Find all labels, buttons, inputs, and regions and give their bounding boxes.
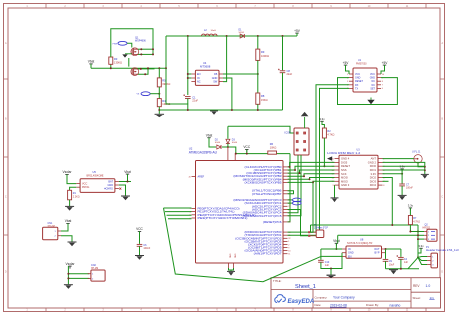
wire VCC pole (246, 149, 248, 153)
svg-text:GND: GND (212, 77, 218, 80)
wire C1 bottom (187, 99, 189, 111)
junction cn2a (67, 273, 69, 275)
date value 2019-02-08 (330, 303, 347, 307)
svg-text:100nF: 100nF (406, 187, 413, 190)
svg-text:BYP: BYP (374, 252, 379, 255)
junction rail/EN (187, 35, 189, 37)
wire out (386, 248, 401, 250)
svg-text:Your Company: Your Company (333, 296, 355, 300)
capacitor C9 plates (383, 259, 389, 261)
inductor L2 (202, 34, 218, 36)
svg-text:IN: IN (348, 248, 351, 251)
junction q2a (140, 68, 142, 70)
wire U1 gnd loop (338, 78, 398, 105)
wire TX-PD1 (288, 88, 350, 235)
svg-text:PROG: PROG (82, 186, 89, 189)
svg-text:(XTAL2/TOSC2)PB7: (XTAL2/TOSC2)PB7 (252, 192, 282, 196)
ground below U5 (121, 196, 130, 200)
svg-text:BRCL4054CME: BRCL4054CME (87, 175, 104, 178)
wire x418 (417, 225, 419, 257)
wire gnd pole (230, 270, 232, 271)
wire gnd3 (334, 185, 336, 197)
wire +5v right (381, 65, 385, 74)
wire xtal (288, 191, 294, 194)
wire r7 top (409, 208, 411, 216)
no-connect mark CHRG (119, 188, 121, 190)
lora U3 body (339, 155, 378, 189)
svg-text:D: D (5, 271, 7, 274)
capacitor C6 plates (137, 244, 143, 246)
wire dio3 (383, 180, 389, 182)
flag Vbat left (88, 60, 95, 67)
wire +5V top rail (166, 35, 297, 37)
wire to EN (188, 73, 192, 75)
ground below C6 (135, 256, 144, 260)
ground below R1 (65, 206, 74, 210)
wire R3 bottom lead (110, 64, 112, 68)
wire to IN (188, 77, 192, 79)
svg-text:10uH: 10uH (211, 30, 217, 32)
svg-text:VCC: VCC (136, 227, 143, 231)
junction out/c9 (385, 248, 387, 250)
junction u4gnd/rail (231, 109, 233, 111)
wire R5-R4 (158, 87, 160, 99)
svg-text:IN: IN (197, 77, 200, 80)
svg-text:DIO1: DIO1 (370, 168, 377, 172)
wire q2p2 (418, 234, 424, 236)
ground below MCU (227, 271, 235, 275)
wire vsolar pole (67, 266, 69, 284)
svg-text:R8: R8 (261, 94, 265, 98)
svg-text:3.3v: 3.3v (408, 204, 414, 208)
svg-text:CN2: CN2 (91, 264, 96, 267)
wire c10 top (320, 249, 322, 260)
oval net SDA (292, 198, 301, 202)
svg-text:TITLE:: TITLE: (273, 279, 282, 283)
wire y225 (311, 224, 419, 226)
wire r1 down (69, 200, 71, 206)
svg-text:4.7KΩ: 4.7KΩ (413, 221, 420, 224)
wire R4 bottom (158, 107, 160, 114)
junction dio2/y225 (391, 224, 393, 226)
junction 3v3 (401, 173, 403, 175)
svg-text:130KΩ: 130KΩ (114, 60, 122, 64)
wire +5V to ICSP (228, 126, 294, 133)
wire +5V pole (296, 33, 298, 36)
wire Vbat pole (90, 64, 92, 69)
junction divider mid (158, 93, 160, 95)
mcu right pins (233, 165, 282, 256)
wire dio2 down (383, 178, 393, 226)
junction q1d (152, 53, 154, 55)
svg-text:(AIN1/PTCXY)PD7: (AIN1/PTCXY)PD7 (254, 252, 282, 256)
junction q2b (144, 73, 146, 75)
svg-text:ICSP: ICSP (285, 131, 291, 135)
wire oval2 to divider (150, 93, 159, 95)
flag 3.3v r2 (319, 117, 325, 124)
antenna connector J1 (414, 155, 422, 163)
wire gate loop (111, 29, 153, 57)
capacitor C8 plates (278, 69, 285, 73)
svg-text:U8: U8 (360, 237, 364, 241)
wire c9 bottom (385, 261, 387, 268)
diode D2 (217, 145, 221, 149)
svg-text:CN1: CN1 (48, 222, 53, 225)
wire pe1 out (165, 211, 192, 213)
resistor R9 body (256, 49, 260, 60)
svg-text:+5V: +5V (382, 61, 389, 65)
wire miso-p3 (310, 182, 313, 232)
svg-text:Vbat: Vbat (88, 60, 95, 64)
junction shield (424, 166, 426, 168)
svg-text:22uF: 22uF (287, 73, 293, 76)
junction dio (424, 169, 426, 171)
flag vbat charger (124, 170, 131, 177)
svg-text:VCC: VCC (243, 145, 250, 149)
mcu bottom GND pins (229, 263, 234, 268)
wire gnd merge (229, 268, 234, 270)
wire SCK-PB3 (288, 174, 335, 176)
ground below C7 (398, 195, 407, 200)
svg-text:(XCKB/SCK0/PTCXY)PB5: (XCKB/SCK0/PTCXY)PB5 (245, 180, 283, 184)
wire C8 bottom (282, 73, 284, 110)
U5 pin names (82, 181, 113, 191)
svg-text:MT3608: MT3608 (200, 65, 211, 69)
wire RESET-PB1 (288, 166, 335, 170)
wire NSS-PB2 (288, 170, 335, 173)
svg-text:VCC: VCC (355, 73, 360, 76)
wire U4 gnd (223, 78, 232, 110)
wire D3 top (227, 126, 229, 139)
svg-text:2.2KΩ: 2.2KΩ (73, 195, 80, 198)
ground below R4 (155, 114, 165, 117)
svg-text:ATMEGA328PB-AU: ATMEGA328PB-AU (189, 150, 218, 154)
svg-text:AREF: AREF (198, 176, 205, 179)
wire y235 (338, 234, 418, 236)
junction avcc (235, 153, 237, 155)
svg-text:2.54mm 3*1P: 2.54mm 3*1P (314, 228, 328, 230)
wire vcc pole (139, 231, 141, 244)
svg-text:SET: SET (370, 87, 375, 90)
ICSP pin pads (296, 132, 306, 151)
EasyEDA logo (275, 295, 314, 306)
junction rail/C8 (282, 35, 284, 37)
CN2 pins (88, 274, 94, 281)
svg-text:C: C (441, 196, 443, 199)
svg-text:15KΩ: 15KΩ (261, 98, 268, 102)
wire vbat pole u8 (335, 243, 337, 249)
resistor R1 body (68, 190, 72, 200)
wire q2 drain (138, 67, 154, 70)
wire gnd pole u8 (330, 269, 332, 276)
junction pb0 (289, 166, 291, 168)
sensor U1 PMS7003 body (353, 68, 377, 92)
ground right of antenna (421, 174, 429, 178)
wire IN (321, 248, 342, 250)
svg-text:(SCL0/ADC5/LPTCXY)PC5: (SCL0/ADC5/LPTCXY)PC5 (243, 214, 282, 218)
svg-text:GND: GND (234, 254, 236, 259)
svg-text:D: D (441, 271, 443, 274)
U8 pin names (348, 248, 380, 258)
ground below C9/C4 (389, 270, 398, 275)
resistor R6 body (268, 151, 277, 154)
svg-text:SS34: SS34 (239, 32, 245, 34)
wire pe0 out (164, 207, 192, 209)
wire MISO-PB5 (288, 181, 335, 182)
svg-text:U.FL J1: U.FL J1 (412, 150, 421, 153)
flag 3.3v r7 (408, 204, 414, 211)
junction vbat u8 (335, 248, 337, 250)
ground on bottom rail (210, 111, 218, 115)
wire diag to gnd (408, 257, 418, 268)
junction pb3 (303, 175, 305, 177)
wire C8 top (282, 36, 284, 70)
ldo U8 body (346, 246, 382, 258)
junction q1b (140, 53, 142, 55)
svg-text:PE3(PTCXY/ADC7/T3/MOSI1): PE3(PTCXY/ADC7/T3/MOSI1) (198, 216, 248, 220)
ground below U8 (flat) (327, 275, 336, 278)
junction R8/rail (257, 109, 259, 111)
svg-text:SW: SW (213, 81, 218, 84)
wire 3v3 pin (383, 173, 403, 175)
svg-text:PWR: PWR (113, 43, 118, 45)
svg-text:DIO5: DIO5 (341, 160, 348, 164)
junction EN (187, 73, 189, 75)
svg-text:Header Female 2.54_1x3: Header Female 2.54_1x3 (426, 248, 459, 252)
svg-text:GND: GND (348, 252, 354, 255)
svg-text:NC: NC (372, 80, 376, 83)
wire pe3 out (168, 218, 192, 220)
junction VCC (246, 153, 248, 155)
capacitor C1 plates (183, 94, 190, 98)
wire dio0 (383, 165, 425, 167)
svg-text:U5: U5 (93, 170, 97, 174)
svg-text:NC: NC (197, 81, 201, 84)
U1 pin stubs and numbers (347, 74, 385, 90)
wire oval to Q1 gate (127, 43, 132, 47)
wire to oval scl (288, 202, 293, 204)
flag vbat cn1 (65, 219, 72, 226)
wire gnd2 (383, 162, 425, 174)
junction q1c (152, 48, 154, 50)
wire dio1 (383, 169, 425, 171)
oval net label 1 (118, 41, 127, 45)
transistor Q2 (lower MOSFET) (131, 68, 139, 76)
wire c6 down (139, 246, 141, 255)
svg-text:WSP4606: WSP4606 (135, 40, 146, 43)
svg-text:C: C (5, 196, 7, 199)
capacitor C10 plates (318, 260, 324, 262)
junction rail/R9 (257, 35, 259, 37)
svg-text:3.3v: 3.3v (319, 117, 325, 121)
wire EN-IN trunk x188 (187, 36, 189, 95)
capacitor C4 plates (397, 255, 404, 259)
U3 pin names (341, 157, 377, 188)
regulator U4 MT3608 body (195, 70, 219, 85)
wire EN (321, 255, 342, 257)
wire bat (119, 181, 131, 183)
wire R9-R8 (257, 60, 259, 93)
svg-text:4.7KΩ: 4.7KΩ (327, 133, 334, 136)
resistor R8 body (256, 93, 260, 104)
junction bat (127, 181, 129, 183)
wire vbat pole chg (127, 174, 129, 182)
svg-text:1/1: 1/1 (430, 296, 435, 300)
svg-text:Sheet:: Sheet: (413, 296, 422, 300)
svg-text:#CHRG: #CHRG (104, 188, 113, 191)
flag 3.3v p1 (418, 244, 424, 251)
svg-text:10KΩ: 10KΩ (270, 146, 277, 150)
transistor Q1 (upper MOSFET) (131, 48, 139, 56)
wire Vbat rail y68 (91, 67, 166, 69)
junction q1a (140, 48, 142, 50)
junction pb1 (294, 169, 296, 171)
svg-text:SS04: SS04 (215, 142, 221, 144)
diode D3 (226, 139, 230, 143)
wire u5 gnd (119, 185, 126, 196)
junction IN (187, 77, 189, 79)
svg-text:Vsolar: Vsolar (62, 170, 72, 174)
svg-text:LORA RFM REV 1.2: LORA RFM REV 1.2 (327, 151, 360, 155)
svg-text:100KΩ: 100KΩ (261, 54, 269, 58)
wire q2 source (138, 68, 148, 74)
wire R6 to RESET (288, 154, 291, 222)
svg-text:Vsolar: Vsolar (65, 262, 75, 266)
svg-text:1uF: 1uF (325, 264, 330, 267)
ICSP header body (294, 128, 309, 155)
wire c10 bottom (321, 262, 331, 268)
wire 3.3v pole (322, 121, 324, 128)
svg-text:Date:: Date: (315, 303, 322, 307)
junction c4/gnd (400, 268, 402, 270)
wire pc3-p3 (288, 210, 309, 236)
ground on U1 loop (367, 98, 374, 105)
wire riser down to C1 (166, 68, 188, 104)
wire pe2 out (167, 214, 192, 216)
Q2 pins (424, 231, 435, 241)
wire R8 bottom (257, 104, 259, 110)
power arrow above ICSP (301, 112, 309, 128)
wire shield (418, 163, 425, 167)
sensor Q2 body (427, 229, 437, 241)
wire SW to rail (223, 36, 227, 82)
U8 pin stubs (342, 249, 386, 256)
svg-text:RX: RX (355, 84, 359, 87)
connector P1 body (431, 253, 438, 268)
svg-text:C8: C8 (287, 69, 291, 73)
svg-text:GND: GND (229, 254, 231, 259)
sheet value 1/1 (429, 296, 434, 300)
svg-text:Vbat: Vbat (333, 239, 340, 243)
svg-text:GND: GND (107, 184, 113, 187)
port arrow at GND4 (327, 156, 332, 160)
svg-text:VCC: VCC (82, 183, 87, 186)
U4 pin names (197, 73, 218, 84)
resistor R4 body (157, 99, 161, 107)
flag vsolar charger (62, 170, 72, 177)
svg-text:2019-02-08: 2019-02-08 (330, 303, 347, 307)
wire 3v3 down (401, 169, 403, 184)
wire c9 top (385, 249, 387, 259)
svg-text:EN: EN (197, 73, 201, 76)
svg-text:1uF: 1uF (404, 261, 409, 264)
ground below CN1 (68, 242, 77, 246)
flag vcc c6 (136, 227, 143, 234)
junction gnd node (330, 268, 332, 270)
svg-text:Drawn By:: Drawn By: (366, 303, 379, 307)
U3 pin stubs and numbers (331, 158, 385, 187)
U5 pin stubs (76, 182, 119, 189)
svg-text:GND: GND (355, 77, 361, 80)
wire icsp-pc5 (288, 155, 302, 216)
svg-text:SCK: SCK (341, 172, 347, 176)
wire R2 down (323, 138, 325, 166)
svg-text:(RESET)PC6: (RESET)PC6 (263, 220, 282, 224)
wire gate2 (128, 58, 130, 67)
mcu left pin AREF (192, 176, 196, 178)
svg-text:ANT: ANT (371, 157, 377, 161)
svg-text:3.3v: 3.3v (418, 244, 424, 248)
junction x418 p1 (417, 256, 419, 258)
svg-text:MOSI: MOSI (341, 176, 348, 180)
svg-text:RESET: RESET (341, 164, 350, 168)
junction FB/divider (257, 73, 259, 75)
junction rail left end (158, 109, 160, 111)
wire p1p1 (418, 256, 427, 259)
resistor R5 body (157, 78, 161, 87)
junction cn2b (67, 277, 69, 279)
wire q2p3 (418, 238, 424, 240)
mcu left pins PE0-PE3 (198, 206, 256, 220)
connector CN2 body (91, 270, 105, 281)
flag VCC (243, 145, 250, 152)
svg-text:1.0: 1.0 (426, 284, 431, 288)
wire cn2 p1 (68, 273, 89, 275)
svg-text:EasyEDA: EasyEDA (288, 299, 315, 305)
title block outline (271, 278, 441, 308)
svg-text:DIO2: DIO2 (370, 176, 377, 180)
svg-text:PMS7003: PMS7003 (356, 62, 367, 65)
junction C1/rail (187, 109, 189, 111)
wire RX-PD0 (288, 85, 350, 232)
resistor R7 body (408, 216, 412, 225)
svg-text:OUT: OUT (374, 248, 380, 251)
svg-text:Vbat: Vbat (124, 170, 131, 174)
junction rail/SW (226, 35, 228, 37)
svg-text:NSS: NSS (341, 168, 347, 172)
wire cn2 p2 (68, 277, 89, 279)
svg-text:Company:: Company: (315, 295, 328, 299)
wire D3 bottom (227, 144, 229, 147)
wire Q1 drain (138, 48, 153, 50)
connector P3 body (316, 230, 324, 238)
svg-text:VCC: VCC (370, 73, 375, 76)
svg-text:Vbat: Vbat (65, 219, 72, 223)
wire to oval sda (288, 199, 293, 201)
wire p1p2 (418, 257, 427, 260)
ground below CN2 (64, 285, 73, 289)
svg-text:DIO4: DIO4 (370, 183, 377, 187)
connector CN1 body (43, 227, 58, 239)
flag 3.3v ant (399, 165, 405, 172)
MCU top pin stubs VCC/AVCC (228, 147, 235, 161)
svg-text:SOT23-5 3.3(NbQ-TR: SOT23-5 3.3(NbQ-TR (347, 241, 372, 245)
svg-text:Sheet_1: Sheet_1 (295, 284, 316, 290)
P3 pin pads (308, 231, 316, 237)
flag vbat u8 (333, 239, 340, 246)
resistor R2 body (322, 128, 326, 138)
svg-text:navaho: navaho (390, 303, 401, 307)
